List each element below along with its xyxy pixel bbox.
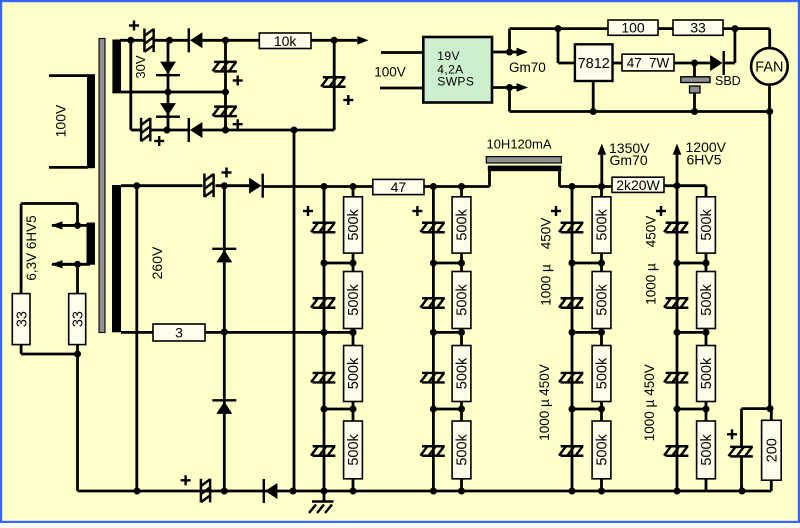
wire multiplier column upper (223, 186, 226, 332)
wire 2k20W to column D (664, 184, 677, 187)
wire across to R33a (21, 202, 77, 205)
node D cap rung 2 (674, 329, 681, 336)
svg-text:450V: 450V (537, 364, 552, 396)
wire 500k A4 bottom stub (352, 479, 355, 491)
svg-text:500k: 500k (595, 284, 611, 316)
capacitor A1 (311, 223, 335, 233)
resistor 500k A4 (344, 421, 363, 479)
filter column C (551, 187, 611, 492)
diode D2 (156, 62, 180, 76)
node multiplier mid (221, 329, 228, 336)
diode D5 (249, 174, 263, 198)
svg-text:33: 33 (70, 311, 86, 327)
node bottom rail / diode column (164, 127, 171, 134)
node mid rail / A resistors (350, 329, 357, 336)
wire 500k A2 top stub (352, 263, 355, 272)
wire 100 to 33 (658, 27, 673, 30)
wire C7 to D5 (216, 184, 250, 187)
svg-text:500k: 500k (595, 433, 611, 465)
wire R33b bottom (76, 345, 79, 354)
resistor 47 (373, 179, 424, 195)
node ground B caps (430, 488, 437, 495)
wire 260V top lead (121, 184, 203, 187)
svg-text:260V: 260V (149, 246, 165, 279)
node SBD/fan junction (732, 25, 739, 32)
svg-text:500k: 500k (699, 433, 715, 465)
polarity + of C4 (233, 119, 243, 129)
diode D6 (212, 249, 236, 263)
svg-text:500k: 500k (699, 284, 715, 316)
wire rung A1 (324, 262, 353, 265)
svg-text:SBD: SBD (715, 74, 741, 88)
node 6,3V bottom (74, 261, 81, 268)
wire 500k D2 bottom stub (705, 329, 708, 333)
wire 47 to choke (424, 185, 490, 188)
node A res rung 2 (350, 329, 357, 336)
wire C9 to ground rail (740, 456, 743, 491)
svg-text:19V: 19V (437, 49, 460, 63)
capacitor C3 1000µ 450V (559, 373, 583, 383)
node cap ground (691, 108, 698, 115)
node C res rung 2 (598, 329, 605, 336)
node ground C resistors (598, 488, 605, 495)
wire rail to D resistors (677, 184, 706, 187)
node 6,3V top (74, 222, 81, 229)
node D res rung 2 (703, 329, 710, 336)
diode D4 (189, 118, 203, 142)
wire 500k C4 top stub (600, 409, 603, 421)
svg-text:500k: 500k (346, 284, 362, 316)
wire 500k C4 bottom stub (600, 479, 603, 491)
polarity + of C7 (222, 168, 232, 178)
choke L1 10H120mA (486, 157, 561, 187)
node ground A caps (321, 488, 328, 495)
resistor 200 (762, 420, 782, 480)
resistor 47 7W (622, 54, 674, 71)
wire cap to return rail (693, 93, 696, 112)
svg-text:500k: 500k (699, 208, 715, 240)
polarity + column D (656, 206, 666, 216)
wire down to 7812 input (557, 29, 560, 63)
wire 500k D3 bottom stub (705, 402, 708, 410)
node rail B resistors (458, 183, 465, 190)
wire 500k C2 bottom stub (600, 329, 603, 333)
node A cap rung 3 (321, 406, 328, 413)
resistor 33 (heater, right) (69, 294, 87, 345)
node mid rail / cap column (222, 89, 229, 96)
capacitor C9 (fan dropper filter) (729, 447, 753, 457)
wire diode column lower (167, 92, 170, 130)
resistor 500k C1 (592, 197, 611, 253)
wire 500k D4 top stub (705, 409, 708, 421)
wire 500k D4 bottom stub (705, 479, 708, 491)
wire 500k C3 top stub (600, 332, 603, 345)
node ground D caps (674, 488, 681, 495)
node bottom rail / return wire (291, 127, 298, 134)
node mid rail / diode column (165, 89, 172, 96)
wire 500k B4 top stub (460, 409, 463, 421)
wire 500k B1 bottom stub (460, 253, 463, 263)
wire C1 to D1 (154, 39, 188, 42)
node fan dropper top (767, 405, 774, 412)
filter column D (656, 186, 715, 491)
capacitor C8 (series, bottom rail) (201, 479, 210, 503)
wire 500k C2 top stub (600, 263, 603, 272)
node C res rung 3 (598, 406, 605, 413)
wire 500k C3 bottom stub (600, 402, 603, 410)
resistor 500k D3 (697, 346, 716, 402)
filter column B (412, 187, 471, 492)
node B cap rung 1 (430, 260, 437, 267)
wire rail A to 47 (324, 185, 373, 188)
node 260V top / left return (133, 182, 140, 189)
capacitor C1 1000µ 450V (559, 223, 583, 233)
svg-text:100: 100 (621, 20, 645, 36)
node bias cap column top (222, 37, 229, 44)
capacitor D2 1000µ 450V (664, 298, 688, 308)
resistor 500k A3 (344, 346, 363, 402)
arrow output 1350V (597, 144, 606, 187)
wire 500k A4 top stub (352, 409, 355, 421)
svg-text:FAN: FAN (755, 60, 783, 76)
polarity + column C (551, 206, 561, 216)
node C cap rung 2 (569, 329, 576, 336)
svg-text:450V: 450V (644, 216, 659, 248)
fan motor FAN (751, 48, 788, 85)
wire heater return rail (510, 110, 770, 113)
node bias output (331, 37, 338, 44)
resistor 500k B3 (452, 346, 471, 402)
wire bias return to ground rail (293, 130, 296, 491)
wire 500k B3 top stub (460, 332, 463, 345)
polarity + of C3 (233, 76, 243, 86)
transformer secondary winding 260V (112, 185, 121, 332)
node ground A resistors (350, 488, 357, 495)
diode D8 (264, 479, 278, 503)
node D res rung 3 (703, 406, 710, 413)
wire SBD up to fan node (734, 29, 737, 63)
polarity + of C5 (343, 95, 353, 105)
node C1/D2 junction (166, 37, 173, 44)
wire SWPS out bottom (492, 86, 510, 89)
wire 30V bottom lead / mid rail (112, 91, 225, 94)
wire choke to 2k20W (560, 185, 613, 188)
node ground C caps (569, 488, 576, 495)
wire into 7812 (558, 62, 575, 65)
node B res rung 3 (458, 406, 465, 413)
resistor 500k B2 (452, 272, 471, 329)
wire cap chain C (571, 187, 574, 492)
svg-text:500k: 500k (455, 357, 471, 389)
svg-text:100V: 100V (53, 104, 69, 137)
capacitor D4 1000µ 450V (664, 446, 688, 456)
svg-text:6,3V 6HV5: 6,3V 6HV5 (24, 215, 39, 280)
wire rung B2 (433, 331, 461, 334)
wire 500k B3 bottom stub (460, 402, 463, 410)
wire 200 to ground rail (770, 480, 773, 491)
capacitor C2 1000µ 450V (559, 298, 583, 308)
capacitor A4 (311, 446, 335, 456)
capacitor B1 (420, 223, 444, 233)
resistor 33 (heater, left) (12, 294, 30, 345)
wire rung C3 (572, 408, 602, 411)
wire top rail to 100 (510, 27, 609, 30)
capacitor D1 1000µ 450V (664, 223, 688, 233)
resistor 500k B1 (452, 197, 471, 253)
resistor 500k D1 (697, 197, 716, 253)
arrow 6,3V top (51, 221, 78, 229)
polarity + of C8 (181, 475, 191, 485)
node ground B resistors (458, 488, 465, 495)
wire multiplier column lower (223, 332, 226, 491)
svg-text:SWPS: SWPS (437, 75, 474, 89)
wire primary bottom lead (49, 166, 88, 169)
svg-text:1000 µ: 1000 µ (644, 263, 659, 305)
wire down to C9 (740, 409, 743, 447)
regulator U3 7812 (575, 44, 613, 81)
wire 7812 ground pin (592, 81, 595, 112)
capacitor D3 1000µ 450V (664, 373, 688, 383)
svg-text:100V: 100V (374, 64, 406, 79)
wire bias output cap branch (333, 40, 336, 130)
svg-text:47 7W: 47 7W (627, 55, 670, 70)
wire SWPS out top (492, 51, 510, 54)
wire 47 7W to SBD (674, 62, 710, 65)
resistor 500k C4 (592, 421, 611, 479)
wire heater return to ground rail (76, 354, 79, 491)
node ground / bias return (290, 488, 297, 495)
arrow Gm70 heater top (510, 48, 529, 57)
resistor 3 (153, 324, 205, 341)
wire rung D1 (677, 262, 706, 265)
resistor 500k B4 (452, 421, 471, 479)
wire right side down to dropper (768, 112, 771, 409)
node ground / C9 (739, 488, 746, 495)
resistor 33 (673, 20, 723, 36)
node rail B caps (430, 183, 437, 190)
wire 6,3V bottom to R33b (76, 264, 79, 293)
arrow Gm70 heater bottom (510, 83, 529, 92)
node rail D caps (674, 182, 681, 189)
svg-text:200: 200 (765, 438, 781, 462)
wire 500k B1 top stub (460, 187, 463, 197)
resistor 2k20W (612, 177, 664, 193)
svg-text:1000 µ: 1000 µ (642, 399, 657, 441)
node SWPS out bottom (506, 84, 513, 91)
node multiplier column top (221, 182, 228, 189)
svg-text:7812: 7812 (578, 56, 610, 72)
capacitor C5 (bias output filter) (321, 77, 345, 87)
resistor 500k D2 (697, 272, 716, 329)
node B res rung 1 (458, 260, 465, 267)
wire D5 to filter rail (262, 185, 324, 188)
wire 500k D3 top stub (705, 332, 708, 345)
wire 260V bottom lead (121, 331, 153, 334)
node rail A resistors (350, 183, 357, 190)
wire R33a bottom (20, 345, 23, 354)
node B res rung 2 (458, 329, 465, 336)
wire rung A3 (324, 408, 353, 411)
node rail C resistors (598, 183, 605, 190)
resistor 500k A2 (344, 272, 363, 329)
svg-text:500k: 500k (455, 208, 471, 240)
wire SBD to fan node (724, 62, 735, 65)
wire bias cap column (224, 40, 227, 130)
resistor 10k (259, 33, 311, 49)
wire ground rail (78, 490, 772, 493)
wire SWPS- down (508, 88, 511, 112)
capacitor C1 (series, 30V doubler) (144, 29, 153, 53)
wire D1 to R 10k (202, 39, 259, 42)
node A res rung 3 (350, 406, 357, 413)
wire rung B1 (433, 262, 461, 265)
wire 500k B4 bottom stub (460, 479, 463, 491)
wire 500k B2 top stub (460, 263, 463, 272)
wire 7812 out (613, 62, 623, 65)
diode SBD (710, 51, 724, 75)
resistor 500k C3 (592, 346, 611, 402)
svg-text:1000 µ: 1000 µ (539, 264, 554, 306)
node 7812 ground (590, 108, 597, 115)
capacitor B4 (420, 446, 444, 456)
wire diode column upper (167, 40, 170, 92)
svg-text:450V: 450V (539, 218, 554, 250)
polarity + of C2 (154, 136, 164, 146)
wire 500k B2 bottom stub (460, 329, 463, 333)
arrow 6,3V bottom (51, 260, 78, 268)
wire 500k D2 top stub (705, 263, 708, 272)
svg-text:30V: 30V (133, 55, 148, 78)
svg-text:1000 µ: 1000 µ (537, 399, 552, 441)
node C cap rung 3 (569, 406, 576, 413)
wire 500k C1 bottom stub (600, 253, 603, 263)
wire rung D2 (677, 331, 706, 334)
capacitor C3 (bias stack upper) (213, 62, 237, 72)
node C res rung 1 (598, 260, 605, 267)
node bias top-left junction (127, 37, 134, 44)
wire rung C2 (572, 331, 602, 334)
wire cap chain B (432, 187, 435, 492)
node B cap rung 2 (430, 329, 437, 336)
svg-text:500k: 500k (595, 357, 611, 389)
ground symbol (309, 491, 334, 513)
svg-text:3: 3 (175, 325, 183, 341)
wire cap chain A (323, 187, 326, 492)
diode D3 (156, 103, 180, 117)
node SBD anode / cap (691, 60, 698, 67)
svg-text:6HV5: 6HV5 (687, 152, 722, 168)
resistor 500k A1 (344, 197, 363, 253)
diode D1 (189, 28, 203, 52)
svg-text:47: 47 (391, 179, 407, 195)
wire rung C1 (572, 262, 602, 265)
wire bias bottom rail left (131, 129, 141, 132)
wire D4 to corner (202, 129, 334, 132)
wire left HV return down (135, 186, 138, 491)
diode D7 (212, 400, 236, 414)
wire bias left vertical (129, 40, 132, 130)
resistor 500k C2 (592, 272, 611, 329)
wire 500k A3 bottom stub (352, 402, 355, 410)
node D cap rung 1 (674, 260, 681, 267)
node rail C caps (569, 183, 576, 190)
wire 100V input top (381, 51, 423, 54)
svg-text:33: 33 (14, 311, 30, 327)
wire cap chain D (676, 186, 679, 491)
wire 6,3V bottom lead (52, 263, 90, 266)
wire R33a to junction (21, 353, 77, 356)
node D cap rung 3 (674, 406, 681, 413)
wire 500k D1 bottom stub (705, 253, 708, 263)
wire up from 6,3V top (76, 204, 79, 226)
node ground / left return (134, 488, 141, 495)
wire 100V input bottom (380, 87, 423, 90)
filter column A (303, 187, 362, 492)
capacitor C4 1000µ 450V (559, 446, 583, 456)
svg-text:500k: 500k (346, 208, 362, 240)
wire 500k A1 top stub (352, 187, 355, 197)
svg-text:500k: 500k (455, 284, 471, 316)
node fan return (766, 108, 773, 115)
polarity + of C1 (129, 21, 139, 31)
svg-text:Gm70: Gm70 (509, 60, 546, 75)
resistor 500k D4 (697, 421, 716, 479)
wire 10k to output node (311, 39, 334, 42)
capacitor C7 (series multiplier) (204, 174, 213, 198)
node bottom rail / cap column (222, 127, 229, 134)
wire to fan filter cap (693, 63, 696, 77)
svg-text:10k: 10k (274, 33, 298, 49)
capacitor C6 (fan filter) (681, 77, 710, 93)
wire mid rail to ladder (205, 331, 353, 334)
wire fan bottom (768, 85, 771, 112)
polarity + column A (303, 206, 313, 216)
wire rung B3 (433, 408, 461, 411)
node A cap rung 1 (321, 260, 328, 267)
wire down to fan (768, 29, 771, 49)
power supply module U2 19V 4,2A SWPS (423, 37, 492, 103)
wire 500k C1 top stub (600, 187, 603, 197)
svg-text:2k20W: 2k20W (616, 177, 660, 193)
transformer secondary winding 30V (112, 40, 121, 93)
svg-text:10H120mA: 10H120mA (486, 136, 551, 151)
node heater resistors junction (74, 351, 81, 358)
wire down to 500k D1 (705, 186, 708, 197)
svg-text:33: 33 (690, 20, 706, 36)
node mid rail / A caps (321, 329, 328, 336)
wire 500k A2 bottom stub (352, 329, 355, 333)
node SWPS out top (506, 49, 513, 56)
node rail A caps (321, 183, 328, 190)
svg-text:500k: 500k (699, 357, 715, 389)
wire SWPS+ up (508, 29, 511, 52)
arrow bias output (334, 36, 368, 45)
capacitor A2 (311, 298, 335, 308)
wire 500k A3 top stub (352, 332, 355, 345)
node 7812 input tap (555, 25, 562, 32)
node ground / multiplier column (221, 488, 228, 495)
transformer primary winding 100V (87, 74, 95, 168)
node A cap rung 2 (321, 329, 328, 336)
capacitor B3 (420, 373, 444, 383)
wire dropper to cap branch (742, 407, 771, 410)
wire 6,3V top lead (52, 224, 90, 227)
polarity + column B (412, 206, 422, 216)
wire down to R33a (20, 204, 23, 294)
node A res rung 1 (350, 260, 357, 267)
node B cap rung 3 (430, 406, 437, 413)
capacitor C2 (series, 30V doubler) (141, 118, 150, 142)
